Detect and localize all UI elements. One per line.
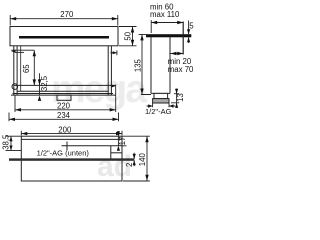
dim 2 line [133, 153, 135, 167]
dim 17 extension bottom [122, 145, 127, 147]
arrow dim 32,5 upper [38, 79, 41, 85]
dim 270 line [10, 18, 118, 20]
wall line [182, 22, 184, 55]
arrows dim 5 [187, 29, 190, 34]
svg-text:1/2"-AG: 1/2"-AG [145, 107, 172, 116]
dim 220 line [15, 109, 116, 111]
svg-text:32,5: 32,5 [40, 75, 49, 91]
dim 270 extension lines [10, 15, 118, 26]
dim 50 extension lines [119, 27, 137, 46]
svg-text:140: 140 [138, 153, 147, 167]
left leg [14, 46, 17, 95]
svg-text:220: 220 [57, 102, 71, 111]
svg-text:13: 13 [176, 93, 185, 102]
step horizontal [111, 152, 122, 154]
svg-text:1/2"-AG (unten): 1/2"-AG (unten) [37, 149, 90, 158]
arrows min60/max110 [151, 21, 157, 24]
crosshair [62, 142, 74, 151]
left screw stub line [15, 51, 24, 53]
arrows 1/2-AG [148, 104, 153, 107]
dim 234 line [9, 118, 119, 120]
dim 5 line upper [188, 21, 190, 35]
svg-text:200: 200 [58, 126, 72, 135]
dim 38,5 tick top [6, 135, 21, 137]
step vertical [110, 146, 112, 159]
dim 140 line [146, 136, 148, 181]
svg-text:270: 270 [60, 10, 74, 19]
dim 13 line [176, 89, 178, 109]
arrows dim 2 (outside) [133, 154, 136, 159]
arrows dim 50 [131, 27, 134, 33]
dim 17 line [117, 131, 119, 146]
dim 220 extension lines [15, 85, 116, 113]
arrows dim 234 [9, 118, 15, 121]
bracket bottom bar middle [13, 93, 114, 95]
svg-text:38,5: 38,5 [2, 134, 11, 150]
arrows min20/max70 [171, 52, 177, 55]
svg-text:17: 17 [118, 137, 127, 146]
arrows dim 140 [145, 136, 148, 142]
svg-text:234: 234 [57, 111, 71, 120]
bracket mid line [14, 84, 116, 86]
connector thread [153, 99, 169, 103]
dim 5 line lower [188, 37, 190, 43]
front view slot [19, 36, 109, 39]
connector upper collar [154, 93, 168, 98]
left screw arrow [11, 50, 15, 53]
svg-text:max 70: max 70 [168, 65, 194, 74]
svg-text:65: 65 [22, 64, 31, 73]
arrows dim 38,5 [9, 136, 12, 141]
arrows dim 270 [10, 17, 16, 20]
dim 140 extension bottom [123, 180, 150, 182]
left leg inner edge [20, 46, 22, 92]
dim 135 line [141, 34, 143, 94]
dim 234 extension lines [9, 113, 119, 122]
dim 50 line [132, 27, 134, 46]
front view plate [10, 27, 118, 46]
left leg circle [12, 84, 18, 90]
arrows dim 135 [140, 34, 143, 40]
base rect [21, 136, 122, 181]
arrows dim 13 [175, 89, 178, 94]
deck line band [9, 158, 134, 160]
right screw arrow mid [111, 85, 115, 88]
dim 200 line [21, 133, 122, 135]
arrows dim 220 [15, 108, 21, 111]
right ext tick vertical top [116, 50, 118, 55]
right screw arrow top [113, 51, 117, 54]
svg-text:5: 5 [189, 22, 194, 31]
bracket bottom bar upper [17, 90, 108, 92]
dim min60/max110 line [151, 22, 183, 24]
blade top plate [146, 34, 191, 37]
dim 32,5 line [39, 73, 41, 95]
dim 13 ticks [171, 94, 179, 103]
right leg [108, 46, 111, 95]
dim 38,5 bottom line [6, 150, 22, 152]
bottom tab [57, 95, 71, 100]
svg-text:50: 50 [123, 31, 132, 40]
dim 1/2-AG line [147, 105, 175, 107]
dim min20/max70 line [171, 53, 184, 55]
dim 38,5 line [10, 136, 12, 150]
dim 135 ticks [139, 34, 152, 94]
svg-text:2: 2 [125, 163, 134, 167]
arrows dim 65 [33, 50, 36, 56]
arrow dim 32,5 lower (below bar) [38, 95, 41, 101]
inner line right of crosshair [73, 145, 122, 147]
right screw line top [110, 52, 117, 54]
dim min60/max110 extension [150, 20, 152, 33]
svg-text:max 110: max 110 [150, 10, 180, 19]
dim 17 extension top [122, 135, 150, 137]
base rim line [21, 138, 122, 140]
svg-text:135: 135 [134, 58, 143, 72]
dim 1/2-AG ext lines [153, 103, 169, 107]
body [151, 37, 170, 93]
arrows dim 17 (outside) [117, 131, 120, 136]
BOTTOM VIEW [9, 136, 134, 181]
arrows dim 200 [21, 132, 27, 135]
dim 65 line [33, 50, 35, 85]
dim 65 tick top [11, 49, 34, 51]
dim 200 extension lines [21, 131, 122, 136]
bracket bottom bar lower [11, 94, 116, 96]
